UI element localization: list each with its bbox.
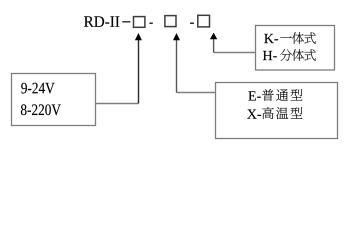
hyphen between square 2 and square 3 [190, 23, 194, 25]
structure text H- [263, 51, 272, 60]
placeholder square 1 (power option) [134, 17, 145, 28]
wire from type box to arrow 2 [177, 92, 216, 94]
hyphen between square 1 and square 2 [149, 23, 152, 25]
type label box (E/X) [216, 83, 338, 139]
structure text 一体式 [280, 36, 292, 37]
arrow 1 head [135, 33, 142, 40]
structure label box (K/H) [256, 26, 335, 71]
arrow 2 shaft up to square 2 [176, 40, 178, 93]
arrow 2 head [173, 33, 180, 40]
voltage label box [12, 74, 96, 126]
voltage text 8-220V [21, 104, 27, 115]
title RD-II [84, 16, 94, 26]
structure text K- [264, 34, 274, 43]
arrow 3 shaft up [213, 39, 215, 53]
structure text 分体式 [280, 49, 292, 61]
type text 普通型 [262, 89, 274, 101]
wire from structure box to arrow 3 [214, 52, 256, 54]
wire from voltage box to arrow 1 [96, 103, 139, 105]
voltage text 9-24V [21, 83, 27, 94]
type text X- [247, 110, 257, 119]
placeholder square 2 (type option) [165, 16, 176, 27]
placeholder square 3 (structure option) [198, 15, 210, 27]
en dash after RD-II [122, 21, 130, 22]
arrow 3 head [210, 33, 217, 40]
type text E- [248, 91, 255, 100]
type text 高温型 [262, 107, 273, 119]
arrow 1 shaft up to square 1 [138, 40, 140, 104]
